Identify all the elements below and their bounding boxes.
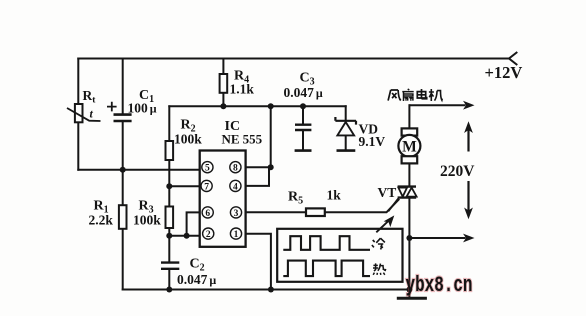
node dot pin8 rail	[268, 103, 274, 109]
svg-text:100k: 100k	[133, 213, 161, 228]
svg-text:2: 2	[206, 230, 211, 240]
wire mid supply rail y106	[169, 105, 345, 107]
op-amp IC U1 NE555 box	[200, 151, 246, 247]
svg-text:0.047μ: 0.047μ	[284, 85, 323, 100]
zener diode VD	[335, 117, 356, 151]
wire R5 to triac gate	[325, 200, 399, 213]
wire pin4 stub	[246, 167, 269, 186]
label 机 (char4)	[429, 89, 442, 101]
wire pin2 stub	[169, 235, 199, 237]
wire pin1 to bottom rail	[246, 234, 271, 290]
svg-text:+12V: +12V	[485, 63, 523, 82]
wire triac to node	[408, 199, 410, 238]
svg-text:9.1V: 9.1V	[359, 134, 386, 149]
node dot pin8 stub	[268, 164, 274, 170]
waveform box	[277, 229, 402, 282]
capacitor C1 (electrolytic)	[107, 102, 132, 121]
svg-text:220V: 220V	[440, 163, 475, 180]
wire R4 top	[222, 59, 224, 75]
svg-text:M: M	[402, 138, 417, 155]
pin 6	[202, 207, 213, 219]
wire C3 stub	[302, 106, 304, 150]
svg-text:Rt: Rt	[83, 88, 97, 106]
svg-text:100k: 100k	[174, 132, 202, 147]
svg-text:VT: VT	[378, 185, 397, 200]
triac VT	[388, 187, 416, 212]
wire R1 to bottom rail	[122, 229, 124, 290]
svg-text:100μ: 100μ	[128, 101, 157, 116]
node dot R3/C2 pin2	[166, 233, 172, 239]
motor M	[398, 128, 420, 163]
wire R2 to R3	[168, 160, 170, 207]
resistor R4	[220, 74, 228, 93]
pin 4	[230, 180, 241, 192]
wire R3 to C2 node	[168, 228, 170, 262]
wire pin3 to R5	[246, 211, 306, 213]
watermark ybx8.cn	[406, 273, 473, 298]
node dot ground rail	[406, 287, 412, 293]
svg-text:1.1k: 1.1k	[230, 82, 255, 97]
node dot C2 bottom	[166, 287, 172, 293]
waveform hot trace	[283, 261, 370, 277]
node dot pin1 bottom	[268, 287, 274, 293]
wire pin6 stub	[187, 212, 200, 235]
wire R2 top	[168, 106, 170, 141]
wire R4 bottom	[222, 93, 224, 107]
arrow bottom node right	[409, 234, 474, 243]
wire fan motor branch	[408, 105, 410, 128]
wire pin5 net horizontal	[78, 169, 199, 171]
arrow 220V down	[464, 181, 473, 219]
arrow 220V up	[464, 121, 473, 151]
svg-text:NE555: NE555	[222, 132, 263, 147]
wire top +12V rail	[78, 58, 509, 60]
pin 1	[230, 228, 241, 240]
arrow chevron +12V lead-in	[509, 53, 517, 65]
wire node to bottom rail	[408, 238, 410, 290]
capacitor C2	[161, 263, 179, 269]
svg-text:1k: 1k	[327, 188, 342, 203]
node dot R2/R3 pin7	[166, 183, 172, 189]
node dot C1/R1	[120, 167, 126, 173]
svg-text:3: 3	[234, 209, 239, 219]
waveform cold trace	[283, 236, 370, 250]
node dot triac bottom	[406, 235, 412, 241]
pin 2	[203, 228, 214, 240]
svg-text:8: 8	[233, 164, 238, 174]
wire bottom ground rail	[123, 289, 410, 291]
svg-text:7: 7	[204, 182, 209, 192]
arrow fan branch right	[409, 101, 474, 110]
label 电 (char3)	[417, 89, 426, 99]
wire node to R1	[122, 170, 124, 205]
thermistor Rt	[67, 104, 101, 122]
pin 3	[230, 207, 241, 219]
wire C1 to node	[122, 122, 124, 170]
capacitor C3	[295, 125, 312, 151]
node dot pin6 join	[184, 233, 190, 239]
svg-text:t: t	[90, 107, 94, 121]
svg-text:6: 6	[205, 209, 210, 219]
wire left branch vertical (Rt branch)	[77, 59, 79, 170]
wire pin8 vertical	[270, 106, 272, 167]
label 风 (fan motor word char1)	[388, 90, 401, 101]
pin 8	[230, 162, 241, 174]
arrow gate signal	[376, 215, 394, 232]
resistor R3	[166, 207, 174, 229]
node dot R4 rail	[220, 103, 226, 109]
svg-text:0.047μ: 0.047μ	[177, 272, 216, 287]
wire C1 branch top	[122, 59, 124, 114]
ground	[408, 290, 410, 298]
pin 5	[202, 162, 213, 174]
wire pin8 stub	[246, 166, 271, 168]
label 冷	[372, 238, 385, 249]
label 扇 (char2)	[402, 89, 413, 101]
svg-text:C2: C2	[190, 257, 205, 274]
svg-text:2.2k: 2.2k	[89, 213, 114, 228]
wire VD branch	[345, 106, 347, 150]
resistor R2	[166, 141, 174, 160]
wire pin7 stub	[169, 185, 199, 187]
label 热	[373, 263, 386, 275]
resistor R1	[119, 205, 127, 229]
svg-text:1: 1	[234, 230, 239, 240]
svg-text:ybx8.cn: ybx8.cn	[406, 273, 473, 298]
resistor R5	[306, 208, 325, 216]
svg-text:5: 5	[205, 164, 210, 174]
svg-text:4: 4	[233, 182, 238, 192]
node dot C3 rail	[300, 103, 306, 109]
pin 7	[201, 180, 212, 192]
svg-text:R5: R5	[288, 190, 303, 207]
wire C2 to bottom rail	[168, 270, 170, 290]
wire motor to triac	[408, 163, 410, 185]
